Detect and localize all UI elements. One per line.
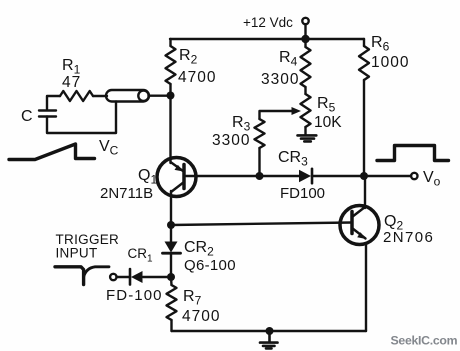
node +12V rail junction: [301, 35, 309, 43]
wire R1 to delay line: [93, 95, 107, 97]
svg-text:2N706: 2N706: [383, 229, 434, 246]
svg-text:4700: 4700: [182, 308, 220, 325]
svg-text:4700: 4700: [178, 69, 216, 86]
svg-text:10K: 10K: [314, 114, 342, 131]
R5 wiper arrow: [292, 107, 302, 115]
wire Vc loop top-left corner: [47, 96, 60, 109]
ground (bottom rail): [260, 331, 278, 348]
wire CR1 to node: [143, 276, 171, 278]
ground (under R5): [298, 135, 317, 141]
output terminal Vo: [411, 173, 417, 179]
wire Q1 collector down: [170, 196, 172, 225]
svg-text:1000: 1000: [371, 54, 409, 71]
resistor R6: [359, 46, 369, 80]
svg-text:3300: 3300: [261, 71, 299, 88]
wire delay line to node: [149, 94, 171, 96]
wire R2 bottom to Q1 emitter: [169, 84, 171, 159]
wire rail to R4: [304, 39, 306, 47]
resistor R3: [255, 119, 265, 148]
wire cross-coupling to Q2 base: [171, 223, 352, 226]
diode CR3 FD100: [299, 169, 312, 183]
resistor R1: [60, 91, 93, 101]
resistor R2: [166, 46, 176, 84]
svg-text:FD-100: FD-100: [106, 287, 163, 304]
wire R7 bottom: [170, 320, 172, 331]
wire left branch vertical (R2 top): [169, 39, 171, 46]
waveform Vc sawtooth: [9, 144, 95, 160]
transistor Q2 2N706: [340, 206, 379, 245]
wire base line to CR3: [260, 175, 300, 177]
resistor R7: [167, 285, 177, 320]
wire rail to R6: [363, 39, 365, 46]
svg-text:SeekIC.com: SeekIC.com: [391, 334, 458, 348]
node trigger junction: [167, 273, 175, 281]
wire R4 to R5: [304, 87, 306, 94]
waveform output pulse: [377, 146, 449, 161]
wire output to Vo terminal: [364, 175, 411, 177]
node ground junction: [266, 327, 274, 335]
node R3 / base line junction: [256, 172, 264, 180]
wire R3 bottom: [258, 148, 260, 176]
resistor R4: [301, 47, 311, 87]
wire Q1 base line: [186, 175, 260, 177]
wire CR3 to right rail: [312, 175, 364, 177]
svg-text:INPUT: INPUT: [56, 246, 98, 261]
node Q2 collector junction: [360, 172, 368, 180]
diode CR1 FD-100: [130, 269, 143, 285]
wire R5 wiper arm: [260, 111, 293, 119]
svg-text:+12 Vdc: +12 Vdc: [243, 15, 293, 30]
transistor Q1 2N711B: [157, 158, 196, 197]
wire Q2 emitter down: [365, 244, 367, 331]
svg-text:2N711B: 2N711B: [100, 185, 153, 202]
wire input terminal to CR1: [117, 276, 131, 278]
svg-text:3300: 3300: [212, 132, 250, 149]
svg-text:FD100: FD100: [280, 185, 325, 202]
svg-text:Q6-100: Q6-100: [184, 257, 236, 274]
delay line DL1: [106, 90, 149, 102]
potentiometer R5: [301, 94, 311, 127]
wire top +12V rail: [170, 38, 364, 40]
wire R5 to ground: [304, 127, 306, 135]
wire bottom ground rail: [172, 330, 367, 332]
diode CR2 Q6-100: [163, 242, 181, 254]
trigger input terminal: [110, 274, 116, 280]
wire CR2 to lower node: [170, 253, 172, 277]
wire C bottom loop: [47, 102, 116, 134]
wire Q2 collector up: [364, 176, 366, 206]
node Q1 collector / Q2 base junction: [167, 221, 175, 229]
wire R6 to collector node: [363, 80, 365, 176]
capacitor C: [39, 111, 56, 117]
node junction R2/delay-line: [167, 92, 175, 100]
wire node to R7: [170, 277, 173, 285]
svg-text:C: C: [21, 108, 33, 125]
waveform trigger spike: [55, 267, 84, 285]
power terminal +12Vdc: [302, 18, 308, 39]
wire junction to CR2: [170, 225, 172, 242]
svg-text:47: 47: [62, 74, 81, 91]
